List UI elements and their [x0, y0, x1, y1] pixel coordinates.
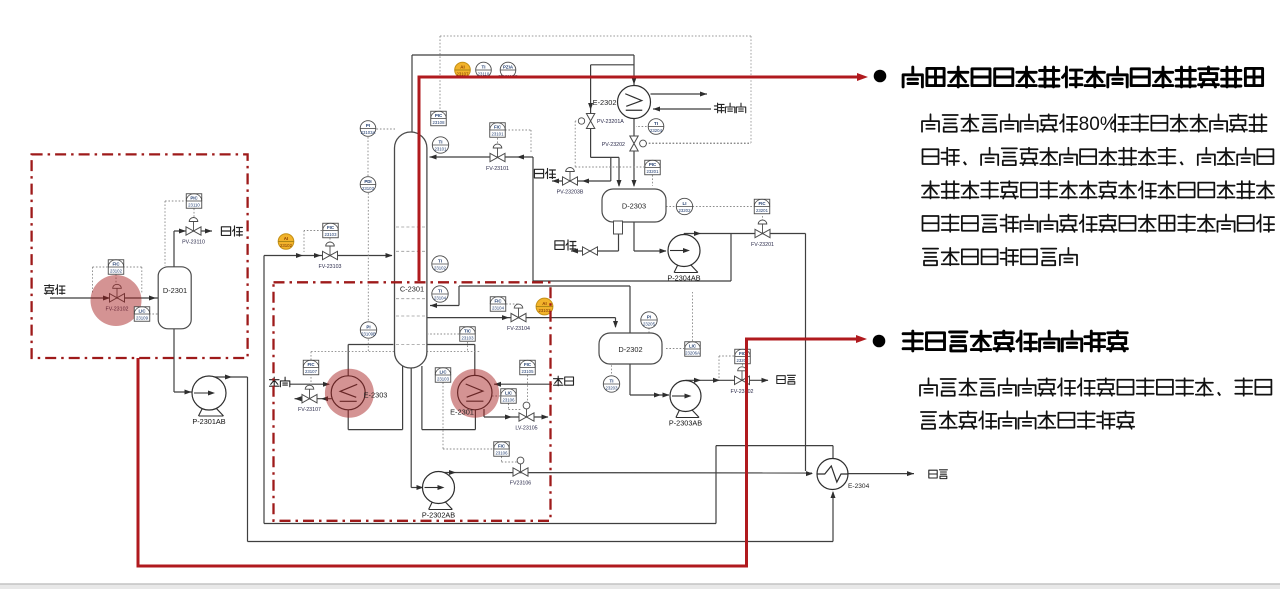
svg-text:23109B: 23109B [361, 331, 376, 336]
svg-text:8: 8 [1079, 114, 1090, 135]
svg-text:23102: 23102 [280, 243, 293, 248]
svg-text:FV-23201: FV-23201 [751, 242, 774, 248]
svg-text:AI: AI [284, 236, 288, 241]
svg-text:TI: TI [438, 288, 442, 293]
svg-text:P-2302AB: P-2302AB [422, 511, 455, 520]
svg-text:23102: 23102 [434, 265, 447, 270]
svg-text:23101: 23101 [492, 131, 505, 136]
svg-text:TI: TI [439, 139, 443, 144]
svg-text:AI: AI [460, 64, 464, 69]
svg-text:D-2302: D-2302 [618, 345, 642, 354]
svg-text:23206A: 23206A [685, 350, 700, 355]
svg-text:PI: PI [647, 314, 651, 319]
svg-text:23110: 23110 [188, 202, 200, 207]
svg-text:P-2301AB: P-2301AB [192, 417, 225, 426]
svg-text:TIC: TIC [464, 328, 472, 333]
svg-text:PIC: PIC [190, 195, 198, 200]
svg-text:FV-23202: FV-23202 [731, 389, 754, 395]
svg-text:C-2301: C-2301 [400, 285, 424, 294]
svg-text:PDI: PDI [364, 179, 371, 184]
svg-text:PI: PI [366, 123, 370, 128]
svg-text:23103: 23103 [325, 232, 338, 237]
svg-text:LI: LI [683, 201, 687, 206]
svg-text:FIC: FIC [112, 261, 120, 266]
svg-text:23205: 23205 [643, 321, 656, 326]
svg-text:23204: 23204 [650, 128, 663, 133]
svg-text:P-2304AB: P-2304AB [667, 274, 700, 283]
svg-text:LV-23105: LV-23105 [515, 426, 537, 432]
svg-text:FV-23107: FV-23107 [298, 407, 321, 413]
svg-text:TI: TI [654, 121, 658, 126]
svg-text:23103: 23103 [437, 376, 450, 381]
svg-text:FV-23101: FV-23101 [486, 166, 509, 172]
svg-text:E-2302: E-2302 [593, 98, 617, 107]
svg-text:23101: 23101 [435, 146, 448, 151]
svg-text:E-2303: E-2303 [364, 391, 388, 400]
svg-text:PV-23203B: PV-23203B [557, 190, 584, 196]
svg-text:FV-23104: FV-23104 [507, 326, 530, 332]
svg-text:23103A: 23103A [361, 130, 376, 135]
svg-text:23103: 23103 [539, 308, 552, 313]
svg-text:23201: 23201 [647, 169, 660, 174]
svg-text:23109: 23109 [136, 315, 149, 320]
svg-text:0: 0 [1089, 114, 1100, 135]
svg-text:FIC: FIC [494, 124, 502, 129]
svg-text:23201: 23201 [756, 208, 769, 213]
svg-text:TI: TI [438, 258, 442, 263]
svg-text:TI: TI [482, 64, 486, 69]
svg-text:23104: 23104 [434, 295, 447, 300]
svg-text:PZIA: PZIA [503, 64, 514, 69]
svg-text:23103: 23103 [462, 335, 475, 340]
svg-text:D-2301: D-2301 [163, 286, 187, 295]
svg-text:PIC: PIC [435, 113, 443, 118]
svg-text:PI: PI [366, 324, 370, 329]
svg-text:TI: TI [610, 378, 614, 383]
svg-text:23108: 23108 [433, 120, 446, 125]
svg-text:23106: 23106 [503, 397, 516, 402]
svg-text:FIC: FIC [307, 362, 315, 367]
svg-text:PIC: PIC [649, 162, 657, 167]
svg-text:P-2303AB: P-2303AB [669, 419, 702, 428]
svg-text:23106: 23106 [496, 450, 509, 455]
svg-text:LIC: LIC [439, 369, 447, 374]
svg-text:23103: 23103 [362, 186, 375, 191]
svg-text:E-2301: E-2301 [450, 408, 474, 417]
svg-text:23202: 23202 [679, 208, 692, 213]
svg-text:23107: 23107 [305, 369, 318, 374]
svg-text:LIC: LIC [138, 308, 146, 313]
svg-text:LIC: LIC [689, 343, 697, 348]
svg-text:PV-23202: PV-23202 [602, 142, 625, 148]
svg-text:FV-23103: FV-23103 [319, 264, 342, 270]
svg-text:23203: 23203 [606, 385, 619, 390]
svg-text:PV-23201A: PV-23201A [597, 119, 624, 125]
svg-text:FIC: FIC [498, 443, 506, 448]
svg-text:D-2303: D-2303 [622, 202, 646, 211]
svg-text:LIC: LIC [505, 390, 513, 395]
svg-text:FIC: FIC [524, 362, 532, 367]
svg-text:23102: 23102 [110, 268, 123, 273]
svg-text:23105: 23105 [522, 369, 535, 374]
svg-text:FIC: FIC [327, 225, 335, 230]
svg-text:FIC: FIC [494, 298, 502, 303]
svg-text:23104: 23104 [492, 305, 505, 310]
svg-text:AI: AI [542, 301, 546, 306]
svg-text:FV23106: FV23106 [510, 481, 532, 487]
svg-text:E-2304: E-2304 [848, 483, 870, 490]
svg-text:PV-23110: PV-23110 [182, 240, 205, 246]
svg-text:FIC: FIC [758, 201, 766, 206]
